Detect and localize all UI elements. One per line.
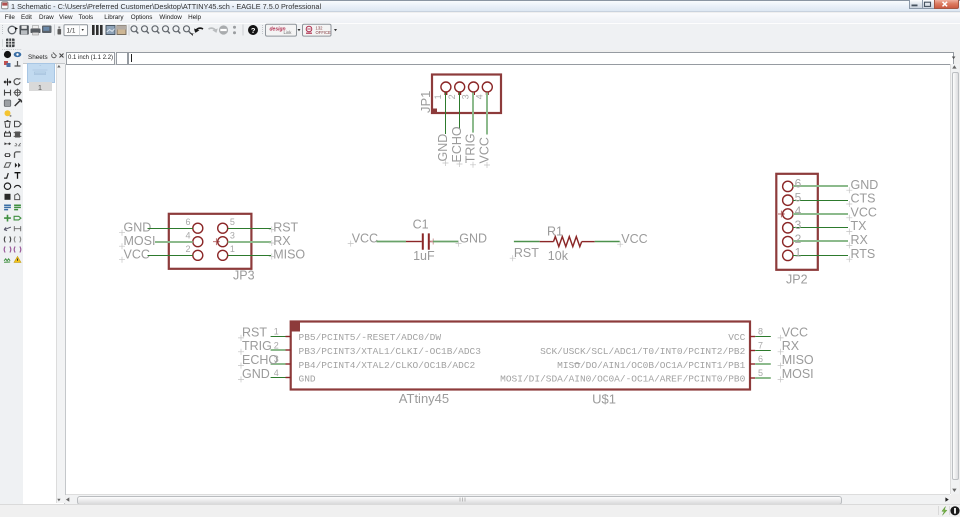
net label GND <box>436 134 450 166</box>
svg-text:OFFICE: OFFICE <box>316 30 332 35</box>
JP3 pin number 5 <box>230 217 235 227</box>
U1 pin name PB5/PCINT5/-RESET/ADC0/DW <box>299 332 442 343</box>
JP3 pin 1 circle <box>218 250 228 260</box>
wire net VCC (JP3 left) <box>148 255 193 257</box>
U1 body <box>291 322 750 390</box>
R1 left lead <box>540 241 554 243</box>
svg-text:RST: RST <box>273 220 298 234</box>
JP3 pin 2 circle <box>193 250 203 260</box>
svg-text:VCC: VCC <box>352 231 378 245</box>
svg-text:1: 1 <box>230 244 235 254</box>
svg-text:5: 5 <box>230 217 235 227</box>
C1 name label <box>413 217 429 231</box>
U1 pin name VCC <box>728 332 745 343</box>
svg-text:VCC: VCC <box>124 247 150 261</box>
svg-text:1: 1 <box>274 327 279 337</box>
svg-text:1/1: 1/1 <box>67 28 76 35</box>
resistor R1 <box>510 224 648 262</box>
svg-text:ECHO: ECHO <box>450 126 464 162</box>
wire net CTS (JP2) <box>793 200 848 202</box>
svg-text:RST: RST <box>242 325 267 339</box>
svg-text:GND: GND <box>459 231 487 245</box>
svg-text:10k: 10k <box>548 249 569 263</box>
IC U$1 ATtiny45 <box>238 322 814 407</box>
wire net MOSI (U1 pin 5) <box>755 377 771 379</box>
U1 pin 4 lead <box>286 377 291 379</box>
svg-text:ECHO: ECHO <box>242 353 278 367</box>
wire net VCC (U1 pin 8) <box>755 336 771 338</box>
connector JP1 <box>418 75 501 169</box>
net label VCC (U1 right) <box>778 325 809 341</box>
svg-text:TRIG: TRIG <box>464 133 478 163</box>
JP1 body <box>432 75 501 114</box>
net label GND (C1 right) <box>456 231 488 246</box>
connector JP3 <box>119 214 305 283</box>
JP1 pin number 1 <box>433 94 443 99</box>
svg-text:6: 6 <box>185 217 190 227</box>
net label RX (JP2) <box>846 233 868 248</box>
wire net TRIG (JP1) <box>472 93 474 133</box>
net label VCC (R1 right) <box>617 232 648 247</box>
svg-text:7: 7 <box>758 340 763 350</box>
svg-text:1uF: 1uF <box>413 249 435 263</box>
svg-text:2: 2 <box>795 232 802 246</box>
svg-text:3: 3 <box>230 230 235 240</box>
net label GND (JP2) <box>846 178 878 193</box>
C1 right lead <box>430 239 436 245</box>
connector JP2 <box>776 174 878 287</box>
U1 pin number 8 <box>758 327 763 337</box>
wire net TX (JP2) <box>793 227 848 229</box>
wire net RX (U1 pin 7) <box>755 350 771 352</box>
JP2 pin number 4 <box>795 204 802 218</box>
net label VCC <box>478 137 492 168</box>
svg-text:PB3/PCINT3/XTAL1/CLKI/-OC1B/AD: PB3/PCINT3/XTAL1/CLKI/-OC1B/ADC3 <box>299 346 482 357</box>
R1 value label 10k <box>548 249 569 263</box>
svg-text:3: 3 <box>795 218 802 232</box>
JP2 pin number 6 <box>795 177 802 191</box>
svg-text:MISO/DO/AIN1/OC0B/OC1A/PCINT1/: MISO/DO/AIN1/OC0B/OC1A/PCINT1/PB1 <box>557 360 745 371</box>
U1 pin number 2 <box>274 340 279 350</box>
svg-text:GND: GND <box>851 178 879 192</box>
svg-text:R1: R1 <box>547 224 563 238</box>
svg-text:JP3: JP3 <box>233 269 255 283</box>
svg-text:GND: GND <box>436 134 450 162</box>
svg-text:RX: RX <box>782 339 800 353</box>
U1 pin 1 lead <box>286 336 291 338</box>
wire net GND (JP1) <box>445 93 447 135</box>
U1 pin number 3 <box>274 354 279 364</box>
svg-text:8: 8 <box>758 327 763 337</box>
JP3 name label <box>233 269 255 283</box>
JP2 pin 5 circle <box>783 195 793 205</box>
svg-text:6: 6 <box>795 177 802 191</box>
JP1 pin number 3 <box>461 94 471 99</box>
svg-text:JP2: JP2 <box>786 273 808 287</box>
svg-text:MOSI/DI/SDA/AIN0/OC0A/-OC1A/AR: MOSI/DI/SDA/AIN0/OC0A/-OC1A/AREF/PCINT0/… <box>500 374 745 385</box>
U1 pin 8 lead <box>750 336 755 338</box>
JP3 pin number 3 <box>230 230 235 240</box>
svg-text:ATtiny45: ATtiny45 <box>399 391 449 406</box>
svg-text:1: 1 <box>795 246 802 260</box>
net label ECHO <box>450 126 464 167</box>
U1 pin name GND <box>299 374 316 385</box>
C1 value label 1uF <box>413 249 435 263</box>
JP2 pin 1 circle <box>783 250 793 260</box>
svg-text:TRIG: TRIG <box>242 339 272 353</box>
net label RST (U1 left) <box>238 325 267 341</box>
svg-text:Link: Link <box>284 30 293 35</box>
svg-text:?: ? <box>251 26 256 35</box>
svg-text:VCC: VCC <box>621 232 647 246</box>
wire net MISO (U1 pin 6) <box>755 363 771 365</box>
svg-text:2: 2 <box>447 94 457 99</box>
JP1 pin 4 circle <box>482 82 492 95</box>
R1 zigzag body <box>554 237 582 247</box>
U1 pin name SCK/USCK/SCL/ADC1/T0/INT0/PCINT2/PB2 <box>540 346 746 357</box>
C1 plates <box>423 233 429 249</box>
wire net VCC (JP1) <box>486 93 488 135</box>
R1 name label <box>547 224 563 238</box>
JP1 pin 2 circle <box>455 82 465 95</box>
net label RTS (JP2) <box>846 247 875 262</box>
wire net RST (JP3 right) <box>228 228 271 230</box>
wire net RX (JP2) <box>793 240 848 242</box>
JP3 pin number 1 <box>230 244 235 254</box>
JP1 pin 3 circle <box>469 82 479 95</box>
net label GND (U1 left) <box>238 367 270 383</box>
svg-text:JP1: JP1 <box>418 91 433 113</box>
wire net GND (U1 pin 4) <box>271 377 286 379</box>
JP3 pin 6 circle <box>193 223 203 233</box>
U1 pin name PB4/PCINT4/XTAL2/CLKO/OC1B/ADC2 <box>299 360 476 371</box>
svg-text:MISO: MISO <box>273 247 305 261</box>
svg-text:RST: RST <box>514 246 539 260</box>
U1 pin number 6 <box>758 354 763 364</box>
wire net VCC (C1) <box>377 241 407 243</box>
net label RST (R1 left) <box>510 246 540 261</box>
JP2 pin number 2 <box>795 232 802 246</box>
JP3 pin number 2 <box>185 244 190 254</box>
wire net RX (JP3 right) <box>228 241 271 243</box>
JP1 pin number 4 <box>474 94 484 99</box>
net label ECHO (U1 left) <box>238 353 278 369</box>
JP3 pin number 6 <box>185 217 190 227</box>
JP3 pin 4 circle <box>193 237 203 247</box>
svg-text:RX: RX <box>273 234 291 248</box>
net label MISO (JP3 right) <box>269 247 306 261</box>
net label MOSI (U1 right) <box>778 367 814 383</box>
U1 pin number 4 <box>274 368 279 378</box>
svg-text:MOSI: MOSI <box>124 234 156 248</box>
net label VCC (JP3 left) <box>119 247 150 262</box>
svg-text:6: 6 <box>758 354 763 364</box>
JP2 pin 3 circle <box>783 223 793 233</box>
wire net RST (U1 pin 1) <box>271 336 286 338</box>
net label TRIG <box>464 133 478 167</box>
net label MOSI (JP3 left) <box>119 234 155 249</box>
U1 pin name MISO inverted-O bar <box>574 363 580 365</box>
JP2 pin number 1 <box>795 246 802 260</box>
svg-text:GND: GND <box>299 374 316 385</box>
JP3 body <box>169 214 252 269</box>
U1 pin 7 lead <box>750 350 755 352</box>
wire net VCC (R1) <box>595 241 620 243</box>
JP3 pin 5 circle <box>218 223 228 233</box>
R1 right lead <box>582 241 595 243</box>
wire net GND (C1) <box>433 241 458 243</box>
U1 pin name MOSI/DI/SDA/AIN0/OC0A/-OC1A/AREF/PCINT0/PB0 <box>500 374 745 385</box>
U1 pin number 1 <box>274 327 279 337</box>
U1 name label U$1 <box>592 392 616 407</box>
U1 pin name MISO/DO/AIN1/OC0B/OC1A/PCINT1/PB1 <box>557 360 745 371</box>
U1 pin 2 lead <box>286 349 291 351</box>
svg-text:4: 4 <box>274 368 279 378</box>
U1 pin number 5 <box>758 368 763 378</box>
JP2 pin number 5 <box>795 190 802 204</box>
U1 pin name PB3/PCINT3/XTAL1/CLKI/-OC1B/ADC3 <box>299 346 482 357</box>
wire net RTS (JP2) <box>793 255 848 257</box>
net label CTS (JP2) <box>846 192 875 207</box>
U1 value label ATtiny45 <box>399 391 449 406</box>
svg-text:1: 1 <box>433 94 443 99</box>
wire net MOSI (JP3 left) <box>155 241 193 243</box>
svg-text:RTS: RTS <box>851 247 876 261</box>
JP1 pin 1 circle <box>441 82 451 95</box>
JP2 name label <box>786 273 808 287</box>
svg-text:C1: C1 <box>413 217 429 231</box>
JP3 origin cross <box>213 238 220 245</box>
JP2 body <box>776 174 818 270</box>
JP3 pin 3 circle <box>218 237 228 247</box>
svg-text:RX: RX <box>851 233 869 247</box>
svg-text:MISO: MISO <box>782 353 814 367</box>
svg-text:CTS: CTS <box>851 192 876 206</box>
net label TX (JP2) <box>846 219 867 234</box>
JP1 pin number 2 <box>447 94 457 99</box>
svg-text:4: 4 <box>185 230 190 240</box>
svg-text:SCK/USCK/SCL/ADC1/T0/INT0/PCIN: SCK/USCK/SCL/ADC1/T0/INT0/PCINT2/PB2 <box>540 346 746 357</box>
JP3 pin number 4 <box>185 230 190 240</box>
svg-text:MOSI: MOSI <box>782 367 814 381</box>
svg-text:VCC: VCC <box>478 137 492 163</box>
svg-text:PB5/PCINT5/-RESET/ADC0/DW: PB5/PCINT5/-RESET/ADC0/DW <box>299 332 442 343</box>
wire net RST (R1) <box>514 241 540 243</box>
net label MISO (U1 right) <box>778 353 814 369</box>
JP2 origin cross <box>778 211 785 218</box>
wire net ECHO (JP1) <box>459 93 461 130</box>
wire net MISO (JP3 right) <box>228 255 271 257</box>
svg-text:5: 5 <box>758 368 763 378</box>
net label GND (JP3 left) <box>119 220 151 235</box>
svg-text:GND: GND <box>124 220 152 234</box>
svg-text:4: 4 <box>795 204 802 218</box>
net label VCC (JP2) <box>846 205 877 220</box>
svg-text:VCC: VCC <box>728 332 745 343</box>
svg-text:TX: TX <box>851 219 868 233</box>
U1 pin 6 lead <box>750 363 755 365</box>
net label RX (U1 right) <box>778 339 800 355</box>
wire net TRIG (U1 pin 2) <box>271 349 286 351</box>
C1 left lead <box>406 241 422 243</box>
net label VCC (C1 left) <box>348 231 378 246</box>
capacitor C1 <box>348 217 487 263</box>
svg-text:GND: GND <box>242 367 270 381</box>
net label TRIG (U1 left) <box>238 339 272 355</box>
wire net GND (JP3 left) <box>148 228 193 230</box>
JP2 pin 4 circle <box>783 209 793 219</box>
svg-text:5: 5 <box>795 190 802 204</box>
svg-text:VCC: VCC <box>851 205 877 219</box>
svg-text:3: 3 <box>461 94 471 99</box>
net label RST (JP3 right) <box>269 220 299 234</box>
U1 pin 3 lead <box>286 363 291 365</box>
svg-text:VCC: VCC <box>782 325 808 339</box>
svg-text:2: 2 <box>274 340 279 350</box>
wire net VCC (JP2) <box>793 213 848 215</box>
wire net ECHO (U1 pin 3) <box>271 363 286 365</box>
svg-text:4: 4 <box>474 94 484 99</box>
net label RX (JP3 right) <box>269 234 291 248</box>
svg-text:U$1: U$1 <box>592 392 616 407</box>
JP1 name label <box>418 91 433 113</box>
wire net GND (JP2) <box>793 185 848 187</box>
U1 pin number 7 <box>758 340 763 350</box>
svg-text:2: 2 <box>185 244 190 254</box>
JP2 pin 6 circle <box>783 181 793 191</box>
JP2 pin 2 circle <box>783 236 793 246</box>
JP2 pin number 3 <box>795 218 802 232</box>
svg-text:PB4/PCINT4/XTAL2/CLKO/OC1B/ADC: PB4/PCINT4/XTAL2/CLKO/OC1B/ADC2 <box>299 360 476 371</box>
U1 pin 5 lead <box>750 377 755 379</box>
